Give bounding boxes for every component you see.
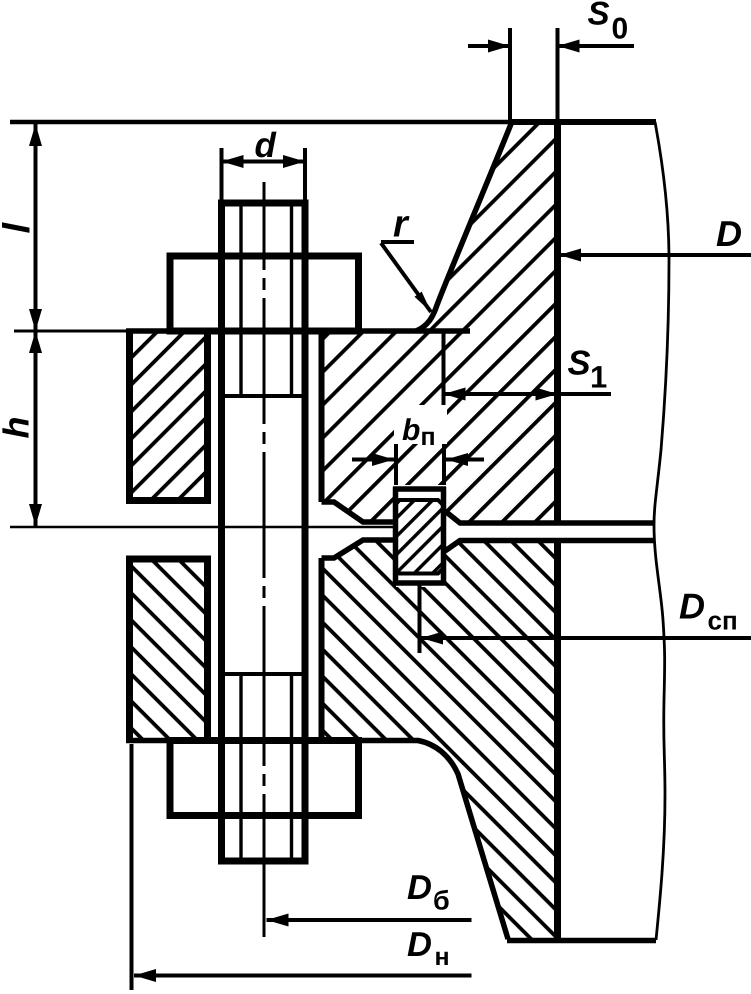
bolt thread line left upper <box>239 206 242 396</box>
svg-text:D: D <box>679 586 705 627</box>
arrow Dn <box>134 969 156 982</box>
arrow S1 left <box>444 388 466 401</box>
neck left edge (upper hub) <box>416 124 511 331</box>
top pipe end line <box>10 120 509 125</box>
lower flange top face, left of gasket <box>322 540 399 558</box>
arrow D <box>559 249 581 262</box>
wavy break line <box>654 122 669 940</box>
svg-text:D: D <box>407 926 432 964</box>
svg-text:1: 1 <box>590 360 607 395</box>
dimension Dn line <box>134 974 472 978</box>
arrow S0 left <box>488 40 510 53</box>
upper flange body and neck hatched region <box>322 124 558 523</box>
arrow bp left <box>372 453 394 466</box>
gasket top line <box>393 486 446 492</box>
dimension bp left tail <box>352 458 394 462</box>
arrow S0 right <box>558 40 580 53</box>
dimension d extension left <box>220 148 224 200</box>
arrow Db <box>267 914 289 927</box>
svg-text:н: н <box>435 943 450 971</box>
lower flange body and hub hatched region <box>322 540 558 941</box>
lower flange left block hatched <box>130 559 208 741</box>
dimension bp right tail <box>446 458 484 462</box>
dimension d extension right <box>303 148 307 200</box>
svg-text:l: l <box>0 222 39 234</box>
upper flange face right of gasket with chamfer, joint gap upper line <box>445 511 654 523</box>
arrow h top <box>29 331 42 353</box>
dimension S0 extension left <box>508 28 512 120</box>
leader r line <box>381 243 431 312</box>
arrow h bottom <box>29 504 42 526</box>
svg-text:h: h <box>0 417 37 439</box>
gasket groove wall left <box>393 487 399 586</box>
thin extension at flange top towards l/h dimension <box>14 330 130 333</box>
svg-text:D: D <box>716 213 742 254</box>
svg-text:б: б <box>433 886 450 916</box>
flange top surface line <box>126 328 470 334</box>
arrow bp right <box>446 453 468 466</box>
dimension S0 extension right <box>556 28 560 120</box>
dimension bp extension right <box>442 444 446 485</box>
gasket top chamfer line <box>396 500 444 506</box>
gasket bottom line <box>393 580 446 586</box>
dimension Dn extension line <box>130 744 134 990</box>
dimension S1 line <box>444 392 612 396</box>
arrow d left <box>222 155 244 168</box>
lower flange bolt-hole right edge <box>319 558 325 741</box>
top nut outline <box>170 256 359 331</box>
dimension D line <box>559 253 751 257</box>
bore line lower segment <box>554 543 561 940</box>
bolt bottom end <box>218 858 309 865</box>
bolt shaft right edge <box>302 203 309 861</box>
gasket fill <box>398 502 442 572</box>
bolt centerline <box>263 182 266 937</box>
dimension S1 extension line <box>442 331 446 409</box>
lower flange left block outline <box>130 559 208 741</box>
svg-text:S: S <box>568 345 591 383</box>
lower hub left edge <box>418 741 508 940</box>
dimension S0 line right tail <box>558 44 635 48</box>
flange bottom surface line <box>126 738 419 744</box>
upper flange left block hatched <box>130 331 208 501</box>
bolt thread line right lower <box>290 674 293 858</box>
svg-text:d: d <box>255 126 277 165</box>
upper flange left block outline <box>130 331 208 501</box>
leader r arrowhead <box>415 292 432 312</box>
bottom pipe end line <box>507 938 656 944</box>
thread runout upper <box>218 394 309 398</box>
arrow S1 right <box>536 388 558 401</box>
arrow Dcp <box>421 632 443 645</box>
bolt shaft left edge <box>218 203 225 861</box>
svg-text:сп: сп <box>708 606 738 636</box>
dimension S0 line left tail <box>468 44 510 48</box>
svg-text:r: r <box>393 204 410 246</box>
thin sealing-plane line (h extension) <box>10 526 393 529</box>
bottom nut outline <box>170 741 359 816</box>
dimension Db line <box>267 918 472 922</box>
bolt thread line right upper <box>290 206 293 396</box>
bolt thread line left lower <box>239 674 242 858</box>
upper flange bolt-hole right edge <box>319 331 325 502</box>
arrow l bottom <box>29 309 42 331</box>
dimension d line <box>222 160 306 164</box>
arrow d right <box>283 155 305 168</box>
svg-text:D: D <box>407 869 432 907</box>
leader r underline <box>381 240 414 244</box>
lower flange face right of gasket with chamfer, joint gap lower line <box>445 541 654 552</box>
bore line upper segment <box>554 122 561 521</box>
label bp background <box>394 405 447 444</box>
dimension l/h vertical line <box>34 124 38 526</box>
dimension Dcp extension line <box>418 585 422 653</box>
upper flange lower face, left of gasket <box>322 502 399 522</box>
thread runout lower <box>218 672 309 676</box>
bolt top end <box>218 200 309 207</box>
dimension bp extension left <box>394 444 398 485</box>
top pipe end line thick part <box>509 119 656 125</box>
gasket bottom chamfer line <box>396 568 444 574</box>
svg-text:п: п <box>421 423 436 451</box>
svg-text:S: S <box>588 0 610 32</box>
gasket groove wall right <box>441 487 447 586</box>
svg-text:b: b <box>402 414 420 447</box>
dimension Dcp line <box>421 636 751 640</box>
arrow l top <box>29 124 42 146</box>
svg-text:0: 0 <box>612 13 629 46</box>
